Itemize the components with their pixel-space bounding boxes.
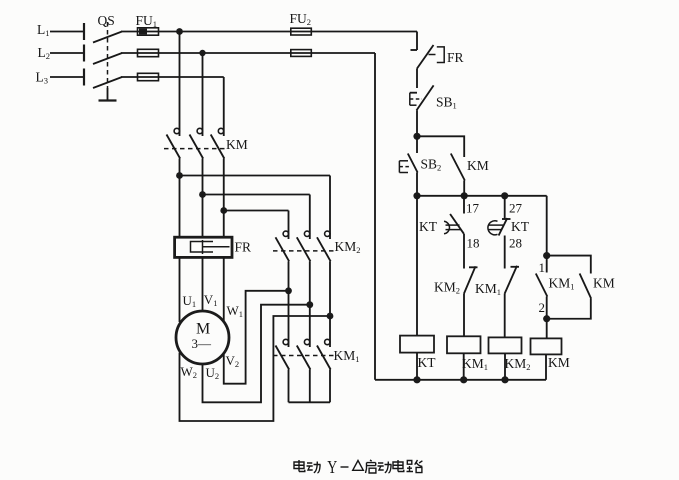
wire to KM coil <box>546 319 548 339</box>
switch QS pole 3 blade <box>93 77 122 88</box>
wire main vertical phase C <box>223 77 225 136</box>
contactor KM1 star contact 2 <box>297 339 311 402</box>
wire phase A into FR <box>179 176 181 239</box>
svg-text:17: 17 <box>466 201 480 216</box>
wire main vertical phase B <box>202 53 204 136</box>
contactor KM linkage dashed <box>164 148 228 150</box>
contactor KM aux NO contact (parallel) <box>547 256 591 319</box>
contactor KM1 NC interlock contact <box>505 266 519 338</box>
switch QS pole 1 blade <box>93 32 122 43</box>
svg-text:KM: KM <box>226 137 248 152</box>
caption char 电 <box>294 460 305 472</box>
svg-text:L1: L1 <box>37 22 50 38</box>
wire delta feed 1 horizontal <box>180 175 331 177</box>
svg-text:KM1: KM1 <box>549 276 575 292</box>
junction dot branch KM2 <box>501 192 508 199</box>
svg-text:L3: L3 <box>36 70 49 86</box>
wire L1 lead-in <box>50 31 84 33</box>
wire row L1 from FU1 to control corner <box>159 31 418 33</box>
svg-text:18: 18 <box>467 236 480 251</box>
wire delta feed 3 horizontal <box>224 210 289 212</box>
svg-text:1: 1 <box>539 260 546 275</box>
contactor KM main contact 2 <box>190 128 204 194</box>
junction dot KM aux bottom <box>461 192 468 199</box>
wire delta feed 2 horizontal <box>203 194 310 196</box>
junction dot phase A <box>176 28 183 35</box>
svg-text:KM: KM <box>548 355 570 370</box>
coil KM2 <box>489 337 522 353</box>
junction dot KM branch top <box>543 252 550 259</box>
switch QS pole 2 fixed jaw <box>83 45 85 62</box>
pushbutton SB2 start (NO) <box>399 136 417 196</box>
contactor KM aux NO contact (seal-in) <box>451 154 465 196</box>
contactor KM main contact 1 <box>167 128 181 175</box>
wire branch KT coil <box>416 196 418 336</box>
svg-text:KM: KM <box>593 276 615 291</box>
svg-text:QS: QS <box>98 13 115 28</box>
contactor KM2 delta contact 2 <box>297 231 311 305</box>
contactor KM1 star contact 1 <box>276 339 290 402</box>
junction dot SB2 top <box>413 133 420 140</box>
wire star point bus <box>289 401 331 403</box>
ground (QS earth) <box>99 88 117 101</box>
contactor KM2 NC interlock contact <box>464 266 478 336</box>
wire QS pole3 to FU1 <box>121 76 138 78</box>
svg-text:W1: W1 <box>227 303 244 319</box>
svg-text:KT: KT <box>511 219 530 234</box>
svg-text:U2: U2 <box>206 365 220 381</box>
wire control bus <box>417 195 547 197</box>
caption: 电动Y-△启动电路 <box>294 457 422 477</box>
svg-text:FU2: FU2 <box>290 11 312 27</box>
fuse FU1 pole 3 <box>138 73 159 80</box>
wire main vertical phase A <box>179 32 181 137</box>
caption char 路 <box>407 460 423 473</box>
svg-text:KM1: KM1 <box>475 281 501 297</box>
wire KM2 coil bottom <box>504 353 506 379</box>
wire phase C into FR <box>223 211 225 239</box>
contactor KM main contact 3 <box>211 128 225 210</box>
junction dot SB2 bottom <box>413 192 420 199</box>
svg-text:U1: U1 <box>183 293 197 309</box>
junction dot phase C lower <box>220 207 227 214</box>
svg-text:KT: KT <box>418 355 437 370</box>
svg-text:KM1: KM1 <box>462 356 488 372</box>
wire motor V2 bracket <box>224 291 289 384</box>
svg-text:L2: L2 <box>38 45 51 61</box>
wire KM coil bottom <box>545 354 547 379</box>
switch QS linkage dashed line <box>107 22 109 88</box>
svg-text:KM1: KM1 <box>334 348 360 364</box>
svg-text:KM2: KM2 <box>505 356 531 372</box>
svg-text:3—: 3— <box>192 336 213 351</box>
junction dot KM1 coil bottom <box>460 376 467 383</box>
motor M 3-phase <box>176 311 229 364</box>
svg-text:FU1: FU1 <box>136 13 158 29</box>
thermal relay FR heater block <box>175 237 232 257</box>
svg-text:27: 27 <box>509 201 523 216</box>
contactor KM1 linkage dashed <box>273 355 334 357</box>
wire FR to SB1 <box>416 69 418 89</box>
wire row L3 from FU1 to corner <box>159 76 224 78</box>
wire node3 down to KM1 <box>329 316 331 347</box>
timer KT delay-close NO contact <box>444 196 464 234</box>
wire delta feed 2 vertical <box>309 195 311 240</box>
wire SB1 to junction <box>416 110 418 136</box>
wire QS pole1 to FU1 <box>121 31 138 33</box>
junction dot delta-star node 2 <box>306 301 313 308</box>
wire row L2 from FU1 to left rail corner <box>159 52 376 54</box>
junction dot KT coil bottom <box>413 376 420 383</box>
wire control bottom bus <box>375 379 546 381</box>
fuse FU1 pole 1 <box>138 28 159 35</box>
junction dot KM2 coil bottom <box>501 376 508 383</box>
timer KT delay-open NC contact <box>488 196 511 269</box>
svg-text:W2: W2 <box>181 364 198 380</box>
junction dot phase B <box>199 50 205 56</box>
svg-text:Y: Y <box>327 457 337 477</box>
wire bus corner to KM branch <box>546 196 548 256</box>
wire delta feed 3 vertical <box>288 211 290 240</box>
svg-text:V2: V2 <box>226 353 240 369</box>
wire FR to motor U1 <box>179 257 181 322</box>
svg-text:FR: FR <box>235 240 252 255</box>
svg-text:KM2: KM2 <box>335 239 361 255</box>
wire FR to motor V1 <box>202 257 204 310</box>
svg-text:FR: FR <box>447 50 464 65</box>
fuse FU2 pole 1 <box>291 28 312 35</box>
junction dot phase A lower <box>176 172 183 179</box>
wire KT contact to KM2 NC <box>463 234 465 269</box>
svg-text:V1: V1 <box>204 292 218 308</box>
fuse FU1 pole 2 <box>138 49 159 56</box>
junction dot phase B lower <box>199 191 206 198</box>
junction dot delta-star node 3 <box>327 313 334 320</box>
svg-text:KM2: KM2 <box>434 280 460 296</box>
caption char △ <box>353 461 364 471</box>
coil KM1 <box>447 336 481 353</box>
wire delta feed 1 vertical <box>329 176 331 240</box>
junction dot KM branch bottom <box>543 315 550 322</box>
contactor KM2 linkage dashed <box>273 250 334 252</box>
junction dot delta-star node 1 <box>285 287 292 294</box>
caption char 动 <box>307 462 321 473</box>
wire branch to KM aux <box>417 136 464 157</box>
wire node1 down to KM1 <box>288 291 290 347</box>
contactor KM2 delta contact 1 <box>276 231 290 291</box>
wire FR to motor W1 <box>223 257 225 321</box>
svg-text:28: 28 <box>509 236 522 251</box>
wire L3 lead-in <box>50 76 84 78</box>
wire control feed corner down <box>416 32 418 51</box>
fuse FU2 pole 2 <box>291 50 312 57</box>
caption char 动 <box>378 462 392 473</box>
contactor KM1 aux NO contact <box>536 256 548 319</box>
pushbutton SB1 stop (NC) <box>410 85 434 110</box>
wire KT coil bottom <box>416 353 418 380</box>
coil KM <box>531 338 562 354</box>
switch QS pole 2 blade <box>93 53 122 64</box>
wire KM1 coil bottom <box>463 353 465 380</box>
coil KT <box>400 336 434 353</box>
contactor KM1 star contact 3 <box>317 339 331 402</box>
wire QS pole2 to FU1 <box>121 52 138 54</box>
svg-text:M: M <box>196 321 210 338</box>
wire motor U2 bracket <box>203 305 310 403</box>
wire motor W2 bracket <box>180 316 331 421</box>
switch QS pole 1 fixed jaw <box>83 23 85 40</box>
caption char 启 <box>366 460 376 473</box>
thermal relay FR NC contact (control) <box>411 45 445 69</box>
caption dash <box>341 466 349 468</box>
wire control left return rail <box>374 53 376 380</box>
svg-text:2: 2 <box>539 300 546 315</box>
svg-text:KT: KT <box>419 219 438 234</box>
wire L2 lead-in <box>50 52 84 54</box>
wire phase B into FR <box>202 195 204 239</box>
contactor KM2 delta contact 3 <box>317 231 331 316</box>
svg-text:KM: KM <box>467 158 489 173</box>
switch QS pole 3 fixed jaw <box>83 69 85 86</box>
caption char 电 <box>393 460 404 472</box>
svg-text:SB2: SB2 <box>421 157 442 173</box>
wire node2 down to KM1 <box>309 305 311 347</box>
svg-text:SB1: SB1 <box>436 95 457 111</box>
